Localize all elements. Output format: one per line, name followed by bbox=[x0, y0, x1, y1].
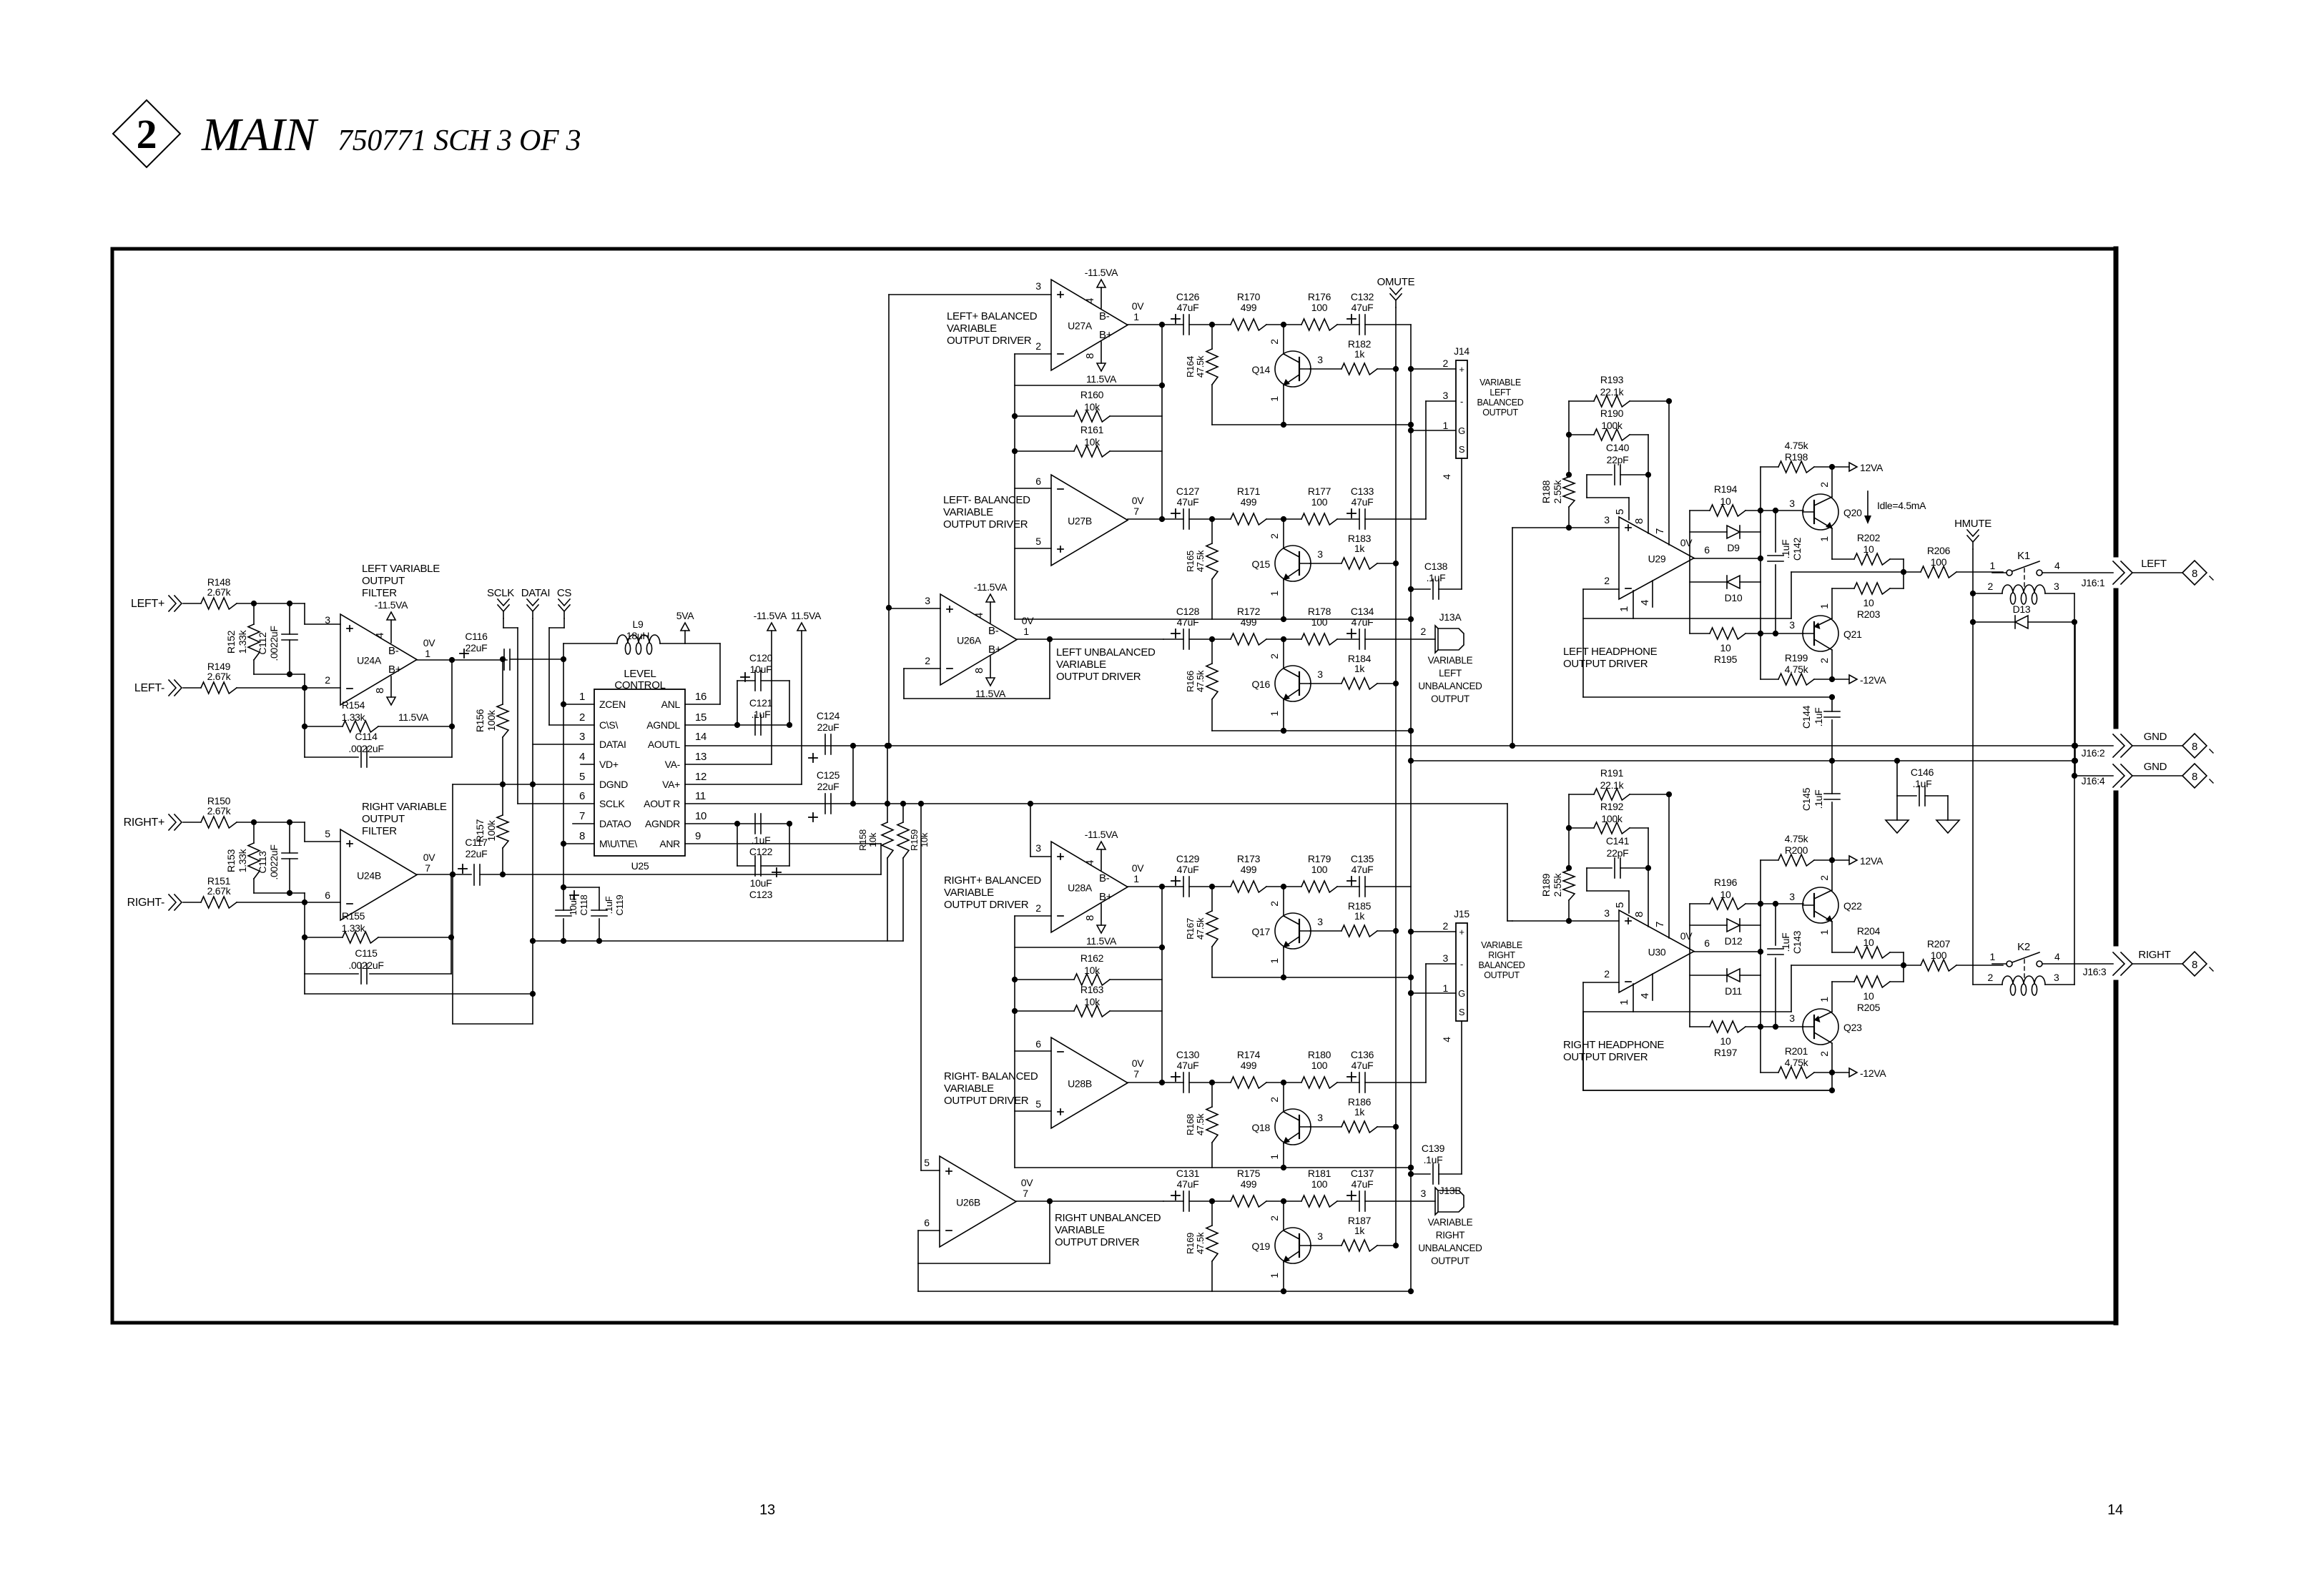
svg-text:R177: R177 bbox=[1308, 485, 1331, 497]
wire ANR pin9 bbox=[685, 843, 881, 844]
svg-text:Idle=4.5mA: Idle=4.5mA bbox=[1877, 500, 1926, 511]
wire R186 to mute bus bbox=[1377, 1126, 1396, 1128]
svg-text:U27B: U27B bbox=[1068, 516, 1092, 527]
capacitor C119 bbox=[591, 909, 607, 911]
op-amp U30 bbox=[1619, 910, 1694, 992]
wire LEFT+ to U24A pin3 bbox=[237, 603, 305, 604]
resistor R188 bbox=[1568, 401, 1570, 477]
svg-text:1k: 1k bbox=[1354, 1225, 1365, 1236]
svg-text:.1uF: .1uF bbox=[1813, 708, 1824, 727]
svg-text:2: 2 bbox=[1269, 533, 1280, 539]
wire R152 C112 bottom bbox=[254, 674, 305, 675]
svg-text:22pF: 22pF bbox=[1607, 847, 1629, 859]
wire GND riser bbox=[2074, 622, 2076, 776]
connector diamond 8 bbox=[2182, 764, 2207, 788]
svg-text:R205: R205 bbox=[1857, 1002, 1881, 1013]
wire R185 to mute bus bbox=[1377, 930, 1396, 932]
svg-text:VARIABLE: VARIABLE bbox=[1428, 1217, 1473, 1228]
svg-text:8: 8 bbox=[2192, 771, 2197, 783]
wire J14 pin1 G bbox=[1411, 430, 1456, 431]
svg-text:47uF: 47uF bbox=[1351, 1060, 1374, 1071]
svg-text:VARIABLE: VARIABLE bbox=[1479, 378, 1521, 388]
svg-text:10k: 10k bbox=[1084, 401, 1101, 413]
wire U28B pin6 bbox=[1015, 1050, 1051, 1052]
power -12VA bbox=[1849, 675, 1857, 684]
wire D13 bbox=[1973, 621, 2015, 623]
wire base rails bbox=[1761, 903, 1803, 904]
svg-text:LEFT- BALANCED: LEFT- BALANCED bbox=[943, 494, 1030, 506]
svg-text:R179: R179 bbox=[1308, 853, 1331, 864]
Q20 collector wire bbox=[1831, 467, 1833, 497]
wire R183 to mute bus bbox=[1377, 563, 1396, 564]
svg-text:0V: 0V bbox=[1680, 930, 1693, 942]
wire output rail bbox=[1791, 571, 1904, 573]
svg-text:RIGHT+: RIGHT+ bbox=[124, 817, 164, 829]
svg-text:RIGHT: RIGHT bbox=[1436, 1230, 1465, 1241]
svg-text:11: 11 bbox=[695, 790, 706, 802]
svg-text:R155: R155 bbox=[342, 910, 365, 922]
svg-text:R173: R173 bbox=[1237, 853, 1261, 864]
resistor R184 bbox=[1310, 683, 1341, 684]
svg-text:R157: R157 bbox=[474, 819, 486, 842]
svg-text:AGNDL: AGNDL bbox=[646, 719, 680, 731]
svg-text:RIGHT: RIGHT bbox=[1488, 950, 1515, 960]
svg-text:OUTPUT: OUTPUT bbox=[1484, 970, 1520, 980]
svg-text:1k: 1k bbox=[1354, 543, 1365, 554]
svg-text:R190: R190 bbox=[1600, 408, 1624, 419]
wire bbox=[1266, 1200, 1301, 1202]
resistor R207 bbox=[1921, 960, 1956, 971]
svg-text:R206: R206 bbox=[1927, 545, 1951, 556]
ground bbox=[1936, 820, 1959, 833]
svg-text:U27A: U27A bbox=[1068, 320, 1093, 332]
wire emitter rail D bbox=[1212, 977, 1411, 978]
wire ANR riser bbox=[880, 844, 882, 874]
connector J15 bbox=[1456, 923, 1467, 1021]
svg-text:R152: R152 bbox=[225, 630, 237, 654]
svg-text:47uF: 47uF bbox=[1177, 302, 1199, 313]
svg-text:2: 2 bbox=[1035, 902, 1041, 914]
resistor R172 bbox=[1231, 633, 1266, 645]
svg-text:15: 15 bbox=[695, 711, 706, 724]
svg-text:.1uF: .1uF bbox=[1427, 572, 1446, 583]
svg-text:C113: C113 bbox=[257, 851, 268, 874]
wire K2 pin4 to J16:3 bbox=[2042, 963, 2113, 965]
svg-text:8: 8 bbox=[579, 830, 585, 842]
wire emitter rail E bbox=[1015, 1167, 1411, 1168]
svg-text:3: 3 bbox=[2054, 581, 2059, 592]
wire SCLK to U25 pin6 bbox=[503, 618, 504, 628]
svg-text:10k: 10k bbox=[1084, 436, 1101, 448]
svg-text:VARIABLE: VARIABLE bbox=[1481, 940, 1522, 950]
svg-text:Q18: Q18 bbox=[1251, 1122, 1270, 1133]
op-amp U26B bbox=[940, 1156, 1016, 1247]
svg-text:8: 8 bbox=[2192, 741, 2197, 753]
svg-text:C128: C128 bbox=[1176, 606, 1200, 617]
feedback node vertical U24A bbox=[451, 660, 453, 757]
capacitor C118 bbox=[563, 887, 564, 910]
svg-text:3: 3 bbox=[1035, 280, 1041, 292]
svg-text:12VA: 12VA bbox=[1860, 855, 1884, 867]
exit J16:4 GND bbox=[2075, 775, 2113, 776]
wire J15 pin4 bbox=[1461, 1021, 1462, 1174]
power -12VA bbox=[1832, 1072, 1849, 1073]
wire bbox=[1189, 1082, 1231, 1083]
Q21 emitter wire bbox=[1831, 650, 1833, 679]
svg-text:U28B: U28B bbox=[1068, 1078, 1092, 1090]
svg-text:R192: R192 bbox=[1600, 801, 1624, 812]
svg-text:2.55k: 2.55k bbox=[1552, 872, 1563, 897]
capacitor C112 bbox=[289, 603, 290, 634]
wire ANL loop bbox=[719, 643, 721, 704]
svg-text:R163: R163 bbox=[1080, 984, 1104, 995]
svg-text:1: 1 bbox=[1818, 603, 1830, 609]
svg-text:DATAO: DATAO bbox=[599, 818, 631, 829]
svg-text:R178: R178 bbox=[1308, 606, 1331, 617]
wire feedback node D bbox=[1161, 887, 1163, 1083]
svg-text:4: 4 bbox=[973, 613, 985, 618]
svg-text:OUTPUT DRIVER: OUTPUT DRIVER bbox=[1056, 671, 1141, 683]
svg-text:RIGHT-: RIGHT- bbox=[127, 897, 164, 909]
svg-text:J13B: J13B bbox=[1439, 1185, 1462, 1196]
Q22 collector wire bbox=[1831, 860, 1833, 890]
resistor R178 bbox=[1301, 633, 1337, 645]
svg-text:8: 8 bbox=[1084, 915, 1096, 921]
svg-text:0V: 0V bbox=[423, 637, 435, 649]
svg-text:BALANCED: BALANCED bbox=[1479, 960, 1525, 970]
wire bbox=[1337, 518, 1359, 520]
svg-text:499: 499 bbox=[1241, 616, 1257, 628]
wire U30 input riser bbox=[1507, 804, 1508, 921]
svg-text:10: 10 bbox=[1863, 597, 1874, 608]
svg-text:RIGHT: RIGHT bbox=[2138, 949, 2170, 961]
svg-text:LEFT-: LEFT- bbox=[134, 682, 164, 694]
svg-text:0V: 0V bbox=[1132, 495, 1144, 506]
power bbox=[797, 623, 806, 631]
svg-text:C139: C139 bbox=[1422, 1143, 1445, 1154]
svg-text:C118: C118 bbox=[578, 894, 589, 915]
svg-text:2: 2 bbox=[1443, 357, 1449, 369]
wire K2 coil pin3 bbox=[2045, 984, 2074, 985]
svg-text:U24B: U24B bbox=[357, 870, 381, 882]
svg-text:C123: C123 bbox=[749, 889, 773, 900]
svg-text:.0022uF: .0022uF bbox=[268, 844, 280, 879]
svg-text:7: 7 bbox=[1133, 506, 1139, 517]
svg-text:3: 3 bbox=[1035, 842, 1041, 854]
svg-text:16: 16 bbox=[695, 691, 706, 703]
svg-text:4: 4 bbox=[2054, 951, 2060, 962]
U25 pin4 stub bbox=[581, 764, 594, 765]
title diamond marker bbox=[113, 100, 180, 167]
capacitor C139 bbox=[1411, 1173, 1430, 1175]
svg-text:2: 2 bbox=[1421, 626, 1427, 637]
svg-text:R176: R176 bbox=[1308, 291, 1331, 302]
svg-text:RIGHT UNBALANCED: RIGHT UNBALANCED bbox=[1055, 1212, 1161, 1224]
svg-text:8: 8 bbox=[1633, 912, 1645, 917]
svg-text:10k: 10k bbox=[1084, 996, 1101, 1007]
svg-text:10: 10 bbox=[1720, 1035, 1731, 1047]
power 12VA bbox=[1849, 463, 1857, 471]
svg-text:499: 499 bbox=[1241, 1178, 1257, 1190]
capacitor C123 loop bbox=[737, 824, 738, 866]
svg-text:VARIABLE: VARIABLE bbox=[944, 1083, 994, 1095]
wire DATAI to U25 pin3 and ground bus bbox=[532, 618, 533, 1024]
capacitor C121 bbox=[754, 715, 756, 735]
wire LEFT- to U24A pin2 bbox=[237, 687, 340, 689]
svg-text:499: 499 bbox=[1241, 1060, 1257, 1071]
resistor R182 bbox=[1310, 368, 1341, 370]
wire J14 pin2 bbox=[1411, 368, 1456, 370]
svg-text:R167: R167 bbox=[1185, 918, 1196, 940]
svg-text:.1uF: .1uF bbox=[1813, 790, 1824, 809]
svg-text:3: 3 bbox=[1317, 1231, 1323, 1242]
svg-text:2: 2 bbox=[1818, 482, 1830, 488]
wire U27B output bbox=[1128, 518, 1163, 520]
resistor R199 bbox=[1778, 674, 1814, 685]
svg-text:0V: 0V bbox=[1132, 1057, 1144, 1069]
power 11.5VA bbox=[387, 697, 395, 705]
svg-text:1: 1 bbox=[1990, 560, 1996, 571]
wire bbox=[1266, 518, 1301, 520]
svg-text:Q19: Q19 bbox=[1251, 1241, 1270, 1252]
Q16 emitter wire bbox=[1283, 700, 1284, 731]
svg-text:LEFT: LEFT bbox=[1490, 388, 1511, 398]
capacitor C128 bbox=[1171, 633, 1180, 634]
resistor R204 bbox=[1854, 947, 1890, 958]
wire U29 pin3 input bbox=[1512, 527, 1619, 528]
svg-text:MAIN: MAIN bbox=[201, 109, 319, 161]
svg-text:Q16: Q16 bbox=[1251, 679, 1270, 690]
svg-text:C126: C126 bbox=[1176, 291, 1200, 302]
wire AOUTL rail bbox=[685, 745, 2075, 746]
svg-text:3: 3 bbox=[1443, 390, 1449, 401]
svg-text:2: 2 bbox=[1269, 901, 1280, 907]
wire AOUT R rail bbox=[685, 803, 1507, 804]
capacitor C144 bbox=[1831, 697, 1833, 711]
wire output row y1514 bbox=[1163, 1082, 1183, 1083]
svg-text:10uF: 10uF bbox=[750, 664, 772, 675]
svg-text:DATAI: DATAI bbox=[521, 587, 550, 599]
svg-text:OUTPUT: OUTPUT bbox=[362, 575, 405, 587]
svg-text:OUTPUT DRIVER: OUTPUT DRIVER bbox=[947, 335, 1032, 347]
svg-text:2: 2 bbox=[1818, 658, 1830, 664]
wire J15 pin1 G bbox=[1411, 992, 1456, 994]
wire U27A output bbox=[1128, 324, 1163, 325]
resistor R158 bbox=[887, 804, 888, 822]
capacitor C134 bbox=[1347, 633, 1356, 634]
resistor R180 bbox=[1301, 1077, 1337, 1088]
svg-text:OUTPUT DRIVER: OUTPUT DRIVER bbox=[1563, 658, 1648, 670]
Q23 emitter wire bbox=[1831, 1043, 1833, 1072]
power 11.5VA bbox=[986, 678, 995, 686]
svg-text:4.75k: 4.75k bbox=[1785, 1057, 1809, 1068]
wire bbox=[1365, 638, 1435, 640]
svg-text:0V: 0V bbox=[1132, 862, 1144, 874]
schematic border frame bbox=[112, 247, 2116, 251]
svg-text:2: 2 bbox=[1269, 654, 1280, 659]
current label Idle=4.5mA bbox=[1867, 491, 1868, 518]
svg-text:10: 10 bbox=[695, 810, 706, 822]
border right bar segment 4 bbox=[2114, 982, 2119, 1323]
svg-text:C145: C145 bbox=[1801, 787, 1812, 811]
wire emitter rail F bbox=[918, 1291, 1411, 1292]
svg-text:11.5VA: 11.5VA bbox=[1086, 935, 1117, 947]
svg-text:14: 14 bbox=[695, 731, 706, 743]
wire emitter rail A bbox=[1212, 424, 1411, 425]
svg-text:B-: B- bbox=[388, 645, 399, 657]
svg-text:3: 3 bbox=[1604, 514, 1610, 526]
resistor R168 bbox=[1211, 1083, 1213, 1107]
svg-text:2: 2 bbox=[1604, 968, 1610, 980]
svg-text:13: 13 bbox=[759, 1502, 775, 1518]
svg-text:C146: C146 bbox=[1911, 766, 1934, 778]
wire bbox=[1337, 324, 1359, 325]
capacitor C113 bbox=[289, 822, 290, 853]
svg-text:Q15: Q15 bbox=[1251, 558, 1270, 570]
svg-text:22uF: 22uF bbox=[466, 642, 488, 654]
capacitor C126 bbox=[1171, 318, 1180, 320]
ground bbox=[1886, 820, 1909, 833]
capacitor C131 bbox=[1171, 1195, 1180, 1196]
wire K1 pin4 to J16:1 bbox=[2042, 572, 2113, 573]
wire R182 to mute bus bbox=[1377, 368, 1396, 370]
transistor Q21 bbox=[1803, 616, 1838, 651]
wire compensation bbox=[1586, 475, 1587, 498]
svg-text:-11.5VA: -11.5VA bbox=[1085, 829, 1118, 840]
svg-text:1: 1 bbox=[1023, 626, 1029, 637]
wire bias chain left bbox=[1689, 511, 1690, 633]
svg-text:3: 3 bbox=[1604, 907, 1610, 919]
svg-text:4: 4 bbox=[1084, 298, 1096, 304]
svg-text:14: 14 bbox=[2107, 1502, 2123, 1518]
svg-text:1: 1 bbox=[425, 648, 430, 659]
capacitor C133 bbox=[1347, 513, 1356, 514]
capacitor C129 bbox=[1171, 880, 1180, 882]
svg-text:B+: B+ bbox=[1099, 891, 1113, 903]
resistor R179 bbox=[1301, 881, 1337, 892]
svg-text:12: 12 bbox=[695, 771, 706, 783]
wire mute rail ZCEN bbox=[563, 643, 564, 887]
svg-text:2: 2 bbox=[925, 655, 930, 666]
wire U24B pin6 feedback bbox=[304, 902, 305, 974]
svg-text:10: 10 bbox=[1720, 642, 1731, 654]
svg-text:R165: R165 bbox=[1185, 551, 1196, 572]
svg-text:UNBALANCED: UNBALANCED bbox=[1418, 681, 1482, 691]
svg-text:R193: R193 bbox=[1600, 374, 1624, 385]
wire bbox=[1337, 1200, 1359, 1202]
resistor R167 bbox=[1211, 887, 1213, 911]
svg-text:3: 3 bbox=[1443, 952, 1449, 964]
svg-text:UNBALANCED: UNBALANCED bbox=[1418, 1243, 1482, 1253]
resistor R162 bbox=[1074, 974, 1110, 985]
svg-text:1.33k: 1.33k bbox=[237, 629, 248, 654]
power 5VA bbox=[681, 623, 689, 631]
svg-text:1: 1 bbox=[1269, 396, 1280, 402]
svg-text:.0022uF: .0022uF bbox=[348, 960, 383, 971]
svg-text:47.5k: 47.5k bbox=[1195, 355, 1206, 378]
U30 pin7 stub bbox=[1668, 794, 1670, 938]
svg-text:6: 6 bbox=[579, 790, 585, 802]
resistor R183 bbox=[1310, 563, 1341, 564]
svg-text:8: 8 bbox=[1633, 518, 1645, 524]
svg-text:C131: C131 bbox=[1176, 1168, 1200, 1179]
svg-text:J16:4: J16:4 bbox=[2082, 775, 2105, 786]
wire bbox=[1365, 1200, 1435, 1202]
wire U24A pin2 feedback bbox=[304, 688, 305, 757]
svg-text:22.1k: 22.1k bbox=[1600, 386, 1625, 398]
svg-text:R207: R207 bbox=[1927, 938, 1951, 950]
svg-text:OUTPUT DRIVER: OUTPUT DRIVER bbox=[944, 1095, 1029, 1107]
U29 pin7 stub bbox=[1668, 401, 1670, 545]
svg-text:3: 3 bbox=[2054, 972, 2059, 983]
svg-text:C115: C115 bbox=[355, 947, 378, 959]
svg-text:1.33k: 1.33k bbox=[237, 848, 248, 872]
svg-text:13: 13 bbox=[695, 751, 706, 763]
svg-text:ZCEN: ZCEN bbox=[599, 699, 626, 710]
svg-text:R198: R198 bbox=[1785, 451, 1808, 463]
wire bbox=[1337, 1082, 1359, 1083]
wire bias chain right bbox=[1760, 467, 1761, 582]
wire K1 coil pin2 bbox=[1973, 593, 2002, 594]
svg-text:22.1k: 22.1k bbox=[1600, 779, 1625, 791]
resistor R185 bbox=[1310, 930, 1341, 932]
svg-text:2.67k: 2.67k bbox=[207, 885, 232, 897]
power 5VA stem bbox=[684, 631, 686, 643]
op-amp U28B bbox=[1051, 1037, 1128, 1128]
svg-text:+: + bbox=[1459, 364, 1464, 375]
capacitor C122 bbox=[754, 814, 756, 834]
svg-text:6: 6 bbox=[1704, 937, 1710, 949]
diode D9 bbox=[1727, 526, 1740, 538]
resistor R192 bbox=[1594, 822, 1630, 834]
svg-text:D12: D12 bbox=[1725, 935, 1743, 947]
wire base rails bbox=[1761, 510, 1803, 511]
svg-text:C142: C142 bbox=[1791, 537, 1803, 561]
power -11.5VA bbox=[1097, 842, 1106, 849]
svg-text:R154: R154 bbox=[342, 699, 365, 711]
capacitor C124 bbox=[824, 734, 826, 754]
capacitor C142/C143 zone bbox=[1775, 904, 1776, 945]
svg-text:B-: B- bbox=[1099, 310, 1110, 322]
svg-text:C116: C116 bbox=[465, 631, 488, 642]
op-amp U27B bbox=[1051, 475, 1128, 566]
svg-text:R164: R164 bbox=[1185, 356, 1196, 378]
resistor R203 bbox=[1854, 583, 1890, 594]
resistor R148 bbox=[201, 598, 237, 609]
power bbox=[767, 623, 776, 631]
svg-text:-11.5VA: -11.5VA bbox=[1085, 267, 1118, 278]
power 11.5VA bbox=[1097, 925, 1106, 933]
svg-text:1: 1 bbox=[1269, 1273, 1280, 1278]
wire RIGHT+ to U24B pin5 bbox=[237, 822, 305, 823]
svg-text:J15: J15 bbox=[1454, 908, 1469, 919]
capacitor C137 bbox=[1347, 1195, 1356, 1196]
svg-text:R202: R202 bbox=[1857, 532, 1881, 543]
Q16 collector wire bbox=[1283, 639, 1284, 669]
capacitor C136 bbox=[1347, 1076, 1356, 1078]
resistor R196 bbox=[1710, 898, 1746, 909]
wire DGND rail bbox=[453, 784, 594, 785]
svg-text:1: 1 bbox=[1818, 929, 1830, 935]
svg-text:LEFT: LEFT bbox=[2141, 558, 2167, 570]
svg-text:R174: R174 bbox=[1237, 1049, 1261, 1060]
svg-text:VARIABLE: VARIABLE bbox=[1055, 1224, 1105, 1236]
svg-text:3: 3 bbox=[325, 614, 330, 626]
svg-text:HMUTE: HMUTE bbox=[1954, 518, 1991, 530]
svg-text:CS: CS bbox=[557, 587, 572, 599]
svg-text:RIGHT+ BALANCED: RIGHT+ BALANCED bbox=[944, 874, 1041, 887]
svg-text:M\U\T\E\: M\U\T\E\ bbox=[599, 838, 637, 849]
